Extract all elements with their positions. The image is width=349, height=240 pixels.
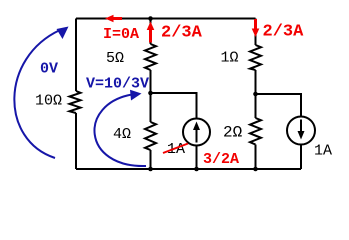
- svg-text:2/3A: 2/3A: [161, 24, 203, 43]
- resistor 4ohm: [145, 122, 156, 150]
- node dot right N: [253, 92, 258, 97]
- node dot bottom A: [148, 167, 153, 172]
- red arrow up at node A: [147, 22, 155, 43]
- svg-text:1A: 1A: [314, 143, 332, 160]
- svg-text:I=0A: I=0A: [103, 26, 139, 43]
- resistor 2ohm: [250, 118, 261, 145]
- blue arc V: [94, 95, 146, 167]
- svg-text:2/3A: 2/3A: [263, 23, 305, 42]
- blue arc 0V: [14, 30, 60, 158]
- node dot bottom I1: [194, 167, 199, 172]
- svg-text:1Ω: 1Ω: [221, 50, 239, 67]
- svg-text:4Ω: 4Ω: [113, 126, 131, 143]
- wire source I1 to bottom: [196, 146, 198, 170]
- current source I2 circle: [287, 117, 315, 145]
- wire top rail: [76, 18, 256, 20]
- svg-text:5Ω: 5Ω: [106, 50, 124, 67]
- svg-text:3/2A: 3/2A: [203, 151, 239, 168]
- red arrow I on top rail: [105, 15, 122, 22]
- svg-text:0V: 0V: [40, 61, 58, 78]
- wire left branch upper: [75, 19, 77, 92]
- wire right node to source I2: [256, 94, 302, 117]
- arrow inside I2 (down): [298, 120, 305, 140]
- wire branch A upper: [150, 19, 152, 45]
- wire source I2 to bottom: [300, 145, 302, 170]
- red arrow down at right branch: [252, 19, 260, 37]
- resistor 5ohm: [145, 44, 156, 70]
- resistor 1ohm: [250, 45, 261, 70]
- wire branch A lower: [150, 150, 152, 169]
- resistor 10ohm: [70, 91, 81, 113]
- blue arrowhead arc V: [130, 90, 142, 101]
- wire bottom rail: [76, 168, 301, 170]
- node dot bottom right: [253, 167, 258, 172]
- wire left branch lower: [75, 113, 77, 169]
- wire right branch lower: [255, 145, 257, 170]
- strike through 1A: [163, 144, 188, 154]
- wire right branch upper: [255, 19, 257, 46]
- blue arrowhead arc 0V: [57, 27, 69, 40]
- svg-text:2Ω: 2Ω: [223, 124, 243, 142]
- svg-text:10Ω: 10Ω: [35, 93, 62, 110]
- wire middle node to source: [151, 93, 197, 119]
- wire branch A middle: [150, 70, 152, 122]
- node dot top: [148, 16, 153, 21]
- svg-text:V=10/3V: V=10/3V: [86, 76, 149, 93]
- wire right branch middle: [255, 70, 257, 118]
- current source I1 circle: [183, 119, 210, 146]
- arrow inside I1 (up): [193, 122, 200, 143]
- node dot middle A: [148, 91, 153, 96]
